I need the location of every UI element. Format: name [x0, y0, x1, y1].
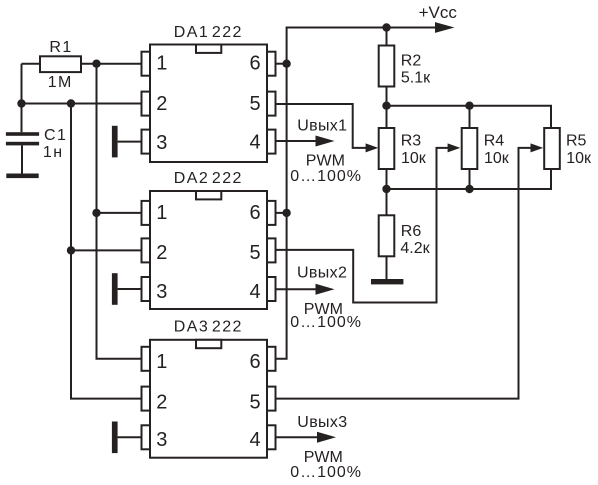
svg-text:2: 2	[156, 242, 167, 264]
svg-text:R5: R5	[566, 133, 587, 150]
svg-text:4.2к: 4.2к	[400, 240, 430, 257]
svg-text:0…100%: 0…100%	[290, 464, 362, 481]
svg-text:5: 5	[250, 93, 261, 115]
svg-text:1: 1	[156, 202, 167, 224]
svg-text:5: 5	[250, 391, 261, 413]
svg-text:3: 3	[156, 281, 167, 303]
svg-text:5: 5	[250, 242, 261, 264]
svg-text:R6: R6	[401, 223, 422, 240]
svg-text:DA3: DA3	[174, 319, 209, 336]
svg-text:R2: R2	[401, 52, 422, 69]
svg-text:222: 222	[212, 319, 243, 336]
svg-text:+Vcc: +Vcc	[419, 3, 458, 22]
svg-text:10к: 10к	[566, 150, 592, 167]
svg-text:Uвых2: Uвых2	[297, 264, 347, 281]
svg-text:1н: 1н	[43, 144, 64, 161]
svg-text:DA2: DA2	[174, 170, 209, 187]
svg-text:Uвых1: Uвых1	[297, 117, 347, 134]
svg-text:6: 6	[250, 53, 261, 75]
svg-text:Uвых3: Uвых3	[297, 414, 347, 431]
svg-text:0…100%: 0…100%	[290, 314, 362, 331]
svg-text:DA1: DA1	[174, 24, 209, 41]
svg-text:R1: R1	[49, 39, 72, 56]
svg-text:1: 1	[156, 52, 167, 74]
svg-text:3: 3	[156, 132, 167, 154]
svg-text:3: 3	[156, 429, 167, 451]
svg-text:5.1к: 5.1к	[401, 69, 431, 86]
svg-text:R3: R3	[401, 133, 422, 150]
svg-text:1: 1	[156, 351, 167, 373]
svg-text:4: 4	[250, 132, 261, 154]
svg-text:2: 2	[156, 391, 167, 413]
svg-text:4: 4	[250, 281, 261, 303]
svg-text:222: 222	[212, 170, 243, 187]
svg-text:4: 4	[250, 429, 261, 451]
svg-text:6: 6	[250, 351, 261, 373]
svg-text:0…100%: 0…100%	[290, 168, 362, 185]
svg-text:R4: R4	[484, 133, 505, 150]
svg-text:2: 2	[156, 93, 167, 115]
svg-text:10к: 10к	[484, 150, 510, 167]
svg-text:10к: 10к	[401, 150, 427, 167]
svg-text:1M: 1M	[48, 74, 73, 91]
svg-text:C1: C1	[44, 127, 67, 144]
svg-text:222: 222	[212, 24, 243, 41]
svg-text:6: 6	[250, 202, 261, 224]
